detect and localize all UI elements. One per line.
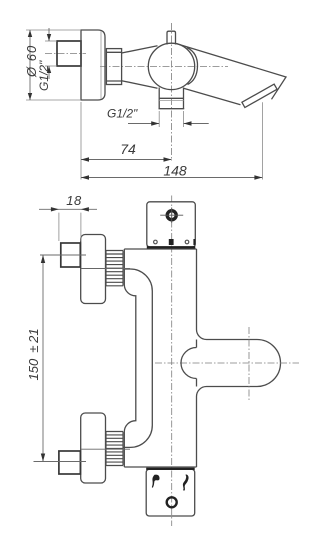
svg-text:150 ± 21: 150 ± 21: [26, 328, 41, 380]
svg-text:74: 74: [120, 141, 136, 157]
svg-text:G1/2": G1/2": [37, 60, 51, 91]
svg-text:G1/2": G1/2": [107, 107, 138, 121]
svg-text:18: 18: [66, 193, 82, 208]
svg-text:148: 148: [163, 163, 187, 179]
